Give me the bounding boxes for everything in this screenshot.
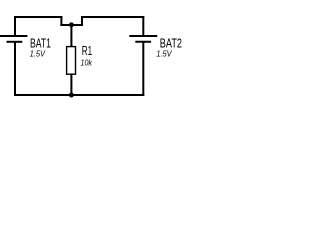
- junction dot bottom node: [69, 93, 74, 98]
- wire left rail vertical top: [14, 16, 16, 36]
- wire jog lower horizontal: [60, 24, 83, 26]
- resistor R1: [67, 47, 76, 75]
- wire top-left horizontal: [14, 16, 62, 18]
- wire left rail vertical bottom: [14, 42, 16, 96]
- junction dot top node: [69, 22, 74, 27]
- svg-text:10k: 10k: [81, 58, 93, 68]
- svg-text:1.5V: 1.5V: [30, 49, 47, 59]
- battery BAT1: [0, 36, 27, 42]
- wire BAT2 rail vertical bottom: [142, 42, 144, 96]
- wire bottom rail horizontal: [14, 94, 144, 96]
- wire jog step-up vertical: [81, 16, 83, 26]
- wire R1 top lead: [70, 25, 72, 47]
- battery BAT2: [129, 36, 157, 42]
- wire jog step-down vertical: [60, 16, 62, 26]
- wire top-right horizontal: [81, 16, 144, 18]
- svg-text:1.5V: 1.5V: [156, 49, 172, 59]
- wire R1 bottom lead: [70, 74, 72, 97]
- wire BAT2 rail vertical top: [142, 16, 144, 36]
- svg-text:R1: R1: [82, 43, 92, 58]
